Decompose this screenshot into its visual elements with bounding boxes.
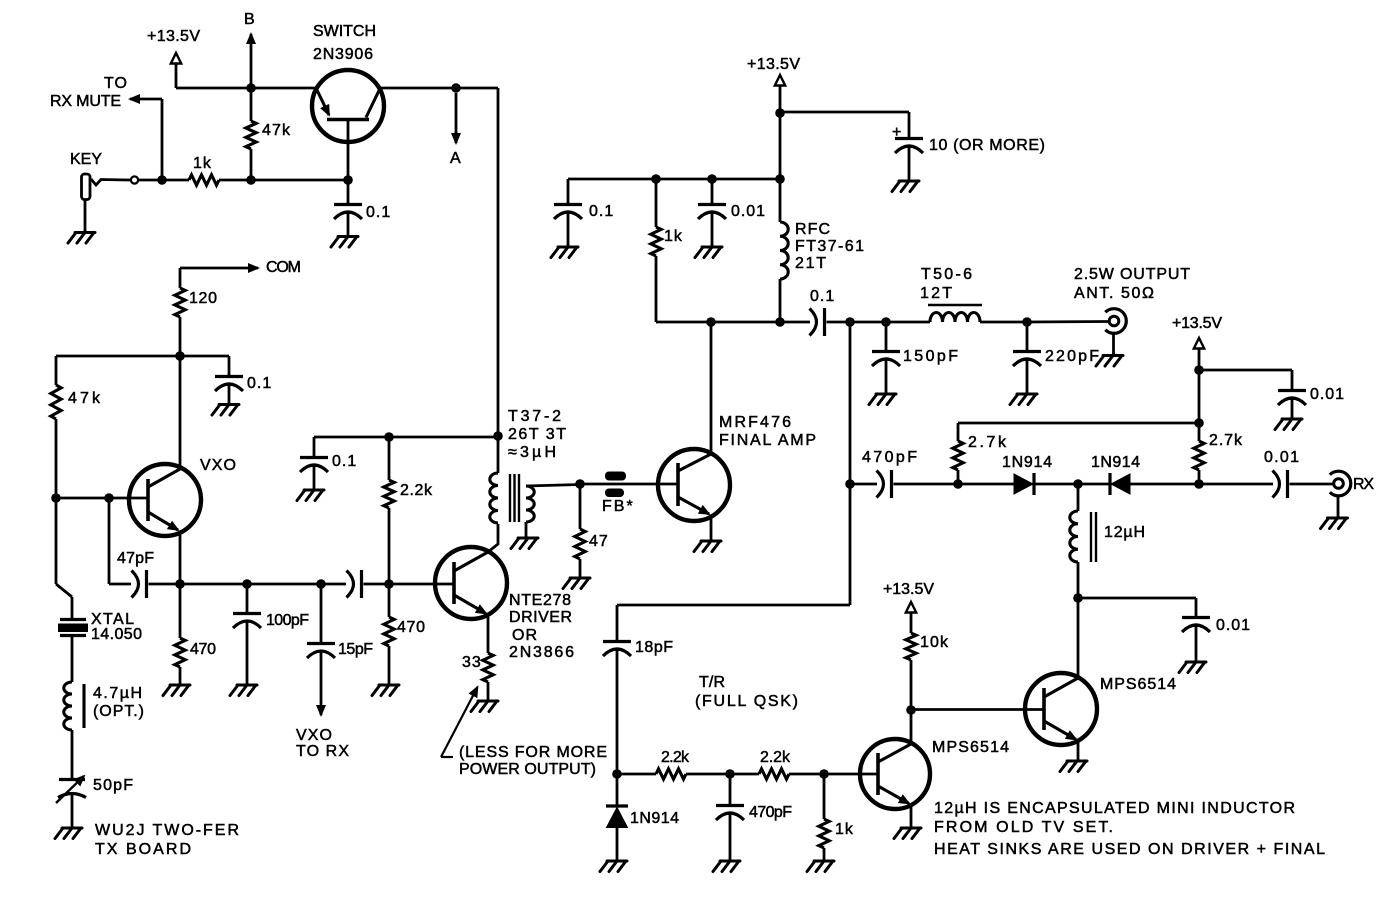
net TO RX MUTE xyxy=(50,75,162,180)
ground (0.1 driver bias) xyxy=(297,490,324,501)
capacitor 0.1 (VXO bypass) xyxy=(215,356,272,404)
svg-text:0.01: 0.01 xyxy=(1310,386,1345,403)
svg-text:KEY: KEY xyxy=(70,151,103,168)
inductor 4.7uH (OPT.) xyxy=(64,635,145,780)
svg-text:12µH: 12µH xyxy=(1104,524,1146,541)
resistor 47k (VXO base) xyxy=(51,356,101,498)
ground (ANT) xyxy=(1096,334,1123,367)
svg-text:470pF: 470pF xyxy=(749,804,793,821)
inductor 12uH xyxy=(1070,484,1146,598)
inductor T50-6 12T xyxy=(920,266,1027,322)
diode D3 1N914 xyxy=(606,774,680,861)
svg-text:150pF: 150pF xyxy=(903,348,959,365)
svg-text:120: 120 xyxy=(189,290,218,307)
svg-text:COM: COM xyxy=(266,259,302,276)
svg-text:(OPT.): (OPT.) xyxy=(93,703,145,720)
svg-text:15pF: 15pF xyxy=(338,641,374,658)
resistor 2.7k (right) xyxy=(1194,370,1243,484)
svg-text:0.1: 0.1 xyxy=(589,203,614,220)
power +13.5V (switch emitter supply) xyxy=(147,28,201,88)
wire VXO output line xyxy=(175,579,394,589)
svg-text:OR: OR xyxy=(512,627,538,644)
ground (470 VXO) xyxy=(163,685,190,696)
resistor 1k (PA) xyxy=(651,179,683,322)
svg-text:12T: 12T xyxy=(920,285,953,302)
svg-text:VXO: VXO xyxy=(200,457,237,474)
svg-text:14.050: 14.050 xyxy=(91,626,143,643)
svg-text:B: B xyxy=(244,11,256,28)
svg-text:SWITCH: SWITCH xyxy=(313,23,377,40)
resistor 470 (VXO emitter) xyxy=(175,584,217,685)
svg-text:12µH IS ENCAPSULATED MINI INDU: 12µH IS ENCAPSULATED MINI INDUCTOR xyxy=(934,800,1296,817)
wire RX line right xyxy=(1199,483,1273,486)
ground (key) xyxy=(68,199,95,243)
svg-text:47k: 47k xyxy=(262,122,291,139)
node B xyxy=(244,11,256,93)
capacitor 0.1 (switch base) xyxy=(334,180,391,236)
transistor Q3 NTE278 DRIVER OR 2N3866 (NPN) xyxy=(435,524,575,661)
svg-text:0.1: 0.1 xyxy=(810,288,835,305)
net COM xyxy=(180,259,302,288)
ground (MRF476 emitter) xyxy=(694,541,721,552)
svg-text:TO: TO xyxy=(104,75,128,92)
wire RX bias rail xyxy=(958,418,1204,428)
svg-text:FB*: FB* xyxy=(602,498,635,515)
ground (0.01 RX bias) xyxy=(1275,419,1302,430)
connector RX xyxy=(1330,471,1375,496)
inductor RFC FT37-61 21T xyxy=(780,179,865,322)
svg-text:(LESS FOR MORE: (LESS FOR MORE xyxy=(459,744,608,761)
svg-text:2N3906: 2N3906 xyxy=(313,46,374,63)
svg-text:47: 47 xyxy=(589,533,609,550)
svg-text:VXO: VXO xyxy=(296,727,333,744)
ground (D3) xyxy=(600,861,627,872)
ground (0.1 PA rail) xyxy=(551,247,578,258)
transistor Q5 MPS6514 (NPN) xyxy=(860,710,1010,828)
svg-text:2.2k: 2.2k xyxy=(760,749,791,766)
resistor 10k xyxy=(906,633,949,710)
capacitor 470pF (T/R) xyxy=(716,774,793,861)
svg-text:220pF: 220pF xyxy=(1045,348,1100,365)
svg-text:A: A xyxy=(450,150,462,167)
svg-text:1N914: 1N914 xyxy=(1091,454,1141,471)
transformer T37-2 26T 3T xyxy=(490,408,580,538)
capacitor 47pF xyxy=(117,550,346,598)
variable capacitor 50pF xyxy=(56,776,134,828)
net VXO TO RX xyxy=(296,727,350,760)
transistor Q6 MPS6514 (NPN) xyxy=(1025,673,1177,761)
node VXO base junction xyxy=(51,493,148,503)
svg-text:TO RX: TO RX xyxy=(296,743,350,760)
svg-text:0.01: 0.01 xyxy=(731,203,766,220)
ground (10uF) xyxy=(892,181,919,192)
wire driver bias rail xyxy=(314,432,498,442)
resistor 2.2k (T/R left) xyxy=(656,749,759,779)
resistor 470 (driver base) xyxy=(384,584,426,685)
capacitor 0.01 (PA rail) xyxy=(698,179,766,247)
node RX supply junction xyxy=(1194,365,1292,390)
ground (50pF) xyxy=(55,828,82,839)
ground (Q6 emitter) xyxy=(1060,761,1087,772)
svg-text:2.2k: 2.2k xyxy=(661,749,690,766)
key jack J1 xyxy=(70,151,138,200)
svg-text:33: 33 xyxy=(462,654,482,671)
svg-text:FT37-61: FT37-61 xyxy=(795,238,865,255)
ground (1k T/R) xyxy=(807,861,834,872)
note 12uH inductor xyxy=(934,800,1296,817)
transistor Q4 MRF476 FINAL AMP (NPN) xyxy=(658,322,817,541)
ground (470pF T/R) xyxy=(713,861,740,872)
crystal XTAL 14.050 xyxy=(58,611,143,643)
capacitor 0.01 (RX coupling) xyxy=(1264,449,1334,498)
wire XTAL branch xyxy=(56,498,72,618)
svg-text:FINAL AMP: FINAL AMP xyxy=(719,432,817,449)
resistor 2.7k (left) xyxy=(953,423,1007,484)
svg-text:26T 3T: 26T 3T xyxy=(508,426,567,443)
svg-text:DRIVER: DRIVER xyxy=(509,609,573,626)
wire T/R base line xyxy=(612,769,829,779)
callout arrow (LESS FOR MORE POWER OUTPUT) xyxy=(441,687,608,778)
ferrite bead FB* xyxy=(602,472,635,516)
power +13.5V (PA supply) xyxy=(747,56,801,113)
node A xyxy=(450,83,462,167)
svg-text:100pF: 100pF xyxy=(266,612,310,629)
wire from switch collector down to T37-2 xyxy=(497,88,500,436)
node Q5 collector junction xyxy=(906,705,1044,715)
connector ANT output xyxy=(1027,266,1191,333)
svg-text:1k: 1k xyxy=(664,228,683,245)
svg-text:+13.5V: +13.5V xyxy=(1172,315,1223,332)
capacitor 0.01 (T/R) xyxy=(1182,617,1251,662)
wire PA bias rail xyxy=(568,113,785,184)
svg-text:POWER OUTPUT): POWER OUTPUT) xyxy=(459,761,597,778)
svg-text:2.2k: 2.2k xyxy=(400,482,433,499)
svg-text:2.7k: 2.7k xyxy=(968,434,1007,451)
ground (0.1 switch base) xyxy=(331,237,358,248)
resistor 33 (driver emitter) xyxy=(462,653,493,701)
wire 47pF branch xyxy=(109,498,131,584)
svg-text:1N914: 1N914 xyxy=(1002,454,1053,471)
node T/R junction xyxy=(1073,593,1196,617)
svg-text:0.1: 0.1 xyxy=(366,204,391,221)
ground (Q5 emitter) xyxy=(894,828,921,839)
ground (0.01 T/R) xyxy=(1179,662,1206,673)
svg-text:RX MUTE: RX MUTE xyxy=(50,93,122,110)
ground (47) xyxy=(563,578,590,589)
power +13.5V (RX bias) xyxy=(1172,315,1223,370)
capacitor 10 (OR MORE) electrolytic xyxy=(892,124,1046,181)
svg-text:4.7µH: 4.7µH xyxy=(93,685,143,702)
svg-text:T37-2: T37-2 xyxy=(508,408,562,425)
label T/R (FULL QSK) xyxy=(695,674,799,710)
svg-text:1k: 1k xyxy=(835,821,854,838)
svg-text:FROM OLD TV SET.: FROM OLD TV SET. xyxy=(934,819,1114,836)
resistor 47 (MRF476 base) xyxy=(575,484,609,578)
ground (220pF) xyxy=(1010,394,1037,405)
capacitor 220pF xyxy=(1013,317,1100,393)
capacitor 0.1 (driver bias bypass) xyxy=(300,437,357,490)
label WU2J TWO-FER TX BOARD xyxy=(95,822,240,858)
ground (VXO 0.1) xyxy=(212,405,239,416)
svg-text:MPS6514: MPS6514 xyxy=(932,739,1010,756)
wire PA output to T/R branch xyxy=(617,322,850,641)
svg-text:+13.5V: +13.5V xyxy=(747,56,801,73)
svg-text:ANT. 50Ω: ANT. 50Ω xyxy=(1074,285,1155,302)
svg-text:21T: 21T xyxy=(795,255,827,272)
svg-text:18pF: 18pF xyxy=(635,639,674,656)
svg-text:TX BOARD: TX BOARD xyxy=(95,841,192,858)
svg-text:470: 470 xyxy=(190,641,217,658)
svg-text:0.1: 0.1 xyxy=(332,453,357,470)
resistor 1k (key line) xyxy=(189,155,348,185)
svg-text:2N3866: 2N3866 xyxy=(509,644,575,661)
transistor Q2 VXO (NPN) xyxy=(129,356,237,584)
svg-text:NTE278: NTE278 xyxy=(509,592,572,609)
svg-text:+13.5V: +13.5V xyxy=(883,581,935,598)
svg-text:≈3µH: ≈3µH xyxy=(508,444,557,461)
svg-text:1N914: 1N914 xyxy=(630,810,680,827)
svg-text:2.7k: 2.7k xyxy=(1209,432,1243,449)
svg-text:50pF: 50pF xyxy=(93,777,134,794)
resistor 120 xyxy=(175,288,218,356)
ground (RX) xyxy=(1321,496,1348,529)
capacitor 100pF xyxy=(233,584,310,685)
ground (150pF) xyxy=(869,394,896,405)
diode D2 1N914 xyxy=(1091,454,1204,495)
capacitor 18pF xyxy=(603,639,674,774)
svg-text:2.5W OUTPUT: 2.5W OUTPUT xyxy=(1074,266,1191,283)
svg-text:47pF: 47pF xyxy=(117,550,155,567)
svg-text:HEAT SINKS ARE USED ON DRIVER: HEAT SINKS ARE USED ON DRIVER + FINAL xyxy=(934,841,1326,858)
svg-text:T/R: T/R xyxy=(699,674,726,691)
ground (T37-2 secondary) xyxy=(511,538,538,549)
power +13.5V (T/R supply) xyxy=(883,581,935,633)
capacitor 15pF (VXO to RX tap) xyxy=(307,584,374,715)
diode D1 1N914 xyxy=(1002,454,1110,495)
svg-text:1k: 1k xyxy=(193,155,212,172)
svg-text:(FULL QSK): (FULL QSK) xyxy=(695,693,799,710)
node RX bias junction xyxy=(953,479,963,489)
resistor 47k (switch base) xyxy=(246,88,291,180)
node VXO collector junction xyxy=(56,351,229,361)
svg-text:RX: RX xyxy=(1353,476,1375,493)
capacitor 0.1 (PA coupling) xyxy=(810,288,931,336)
ground (470 driver) xyxy=(372,685,399,696)
svg-text:RFC: RFC xyxy=(795,221,831,238)
svg-text:470pF: 470pF xyxy=(862,449,918,466)
capacitor 470pF (RX coupling) xyxy=(845,449,1014,498)
note heat sinks xyxy=(934,841,1326,858)
svg-text:10 (OR MORE): 10 (OR MORE) xyxy=(929,137,1046,154)
svg-text:0.01: 0.01 xyxy=(1264,449,1300,466)
svg-text:+13.5V: +13.5V xyxy=(147,28,201,45)
capacitor 0.1 (PA rail bypass) xyxy=(554,179,614,247)
wire to Q6 collector xyxy=(1077,598,1080,678)
node PA supply junction xyxy=(775,108,909,138)
wire PA collector rail xyxy=(656,317,810,327)
node FB junction xyxy=(575,479,678,489)
svg-text:0.1: 0.1 xyxy=(247,375,272,392)
svg-text:WU2J TWO-FER: WU2J TWO-FER xyxy=(95,822,240,839)
ground (33) xyxy=(471,701,498,712)
svg-text:47k: 47k xyxy=(68,390,101,407)
wire top rail xyxy=(176,87,498,90)
svg-text:0.01: 0.01 xyxy=(1216,617,1251,634)
resistor 1k (T/R) xyxy=(819,774,854,861)
node 12uH junction xyxy=(1073,479,1083,489)
resistor 2.2k (driver bias) xyxy=(384,437,433,584)
svg-text:MPS6514: MPS6514 xyxy=(1100,676,1177,693)
ground (100pF) xyxy=(230,685,257,696)
capacitor 0.01 (RX bias bypass) xyxy=(1278,386,1345,419)
svg-text:10k: 10k xyxy=(920,634,949,651)
svg-text:470: 470 xyxy=(397,619,426,636)
transistor Q1 SWITCH 2N3906 (PNP) xyxy=(312,23,384,185)
resistor 2.2k (T/R right) xyxy=(759,749,878,779)
ground (0.01 PA rail) xyxy=(695,247,722,258)
wire key line xyxy=(138,175,189,185)
note from old tv set xyxy=(934,819,1114,836)
capacitor (driver coupling) xyxy=(347,570,455,598)
svg-text:T50-6: T50-6 xyxy=(921,266,973,283)
capacitor 150pF xyxy=(872,322,959,394)
